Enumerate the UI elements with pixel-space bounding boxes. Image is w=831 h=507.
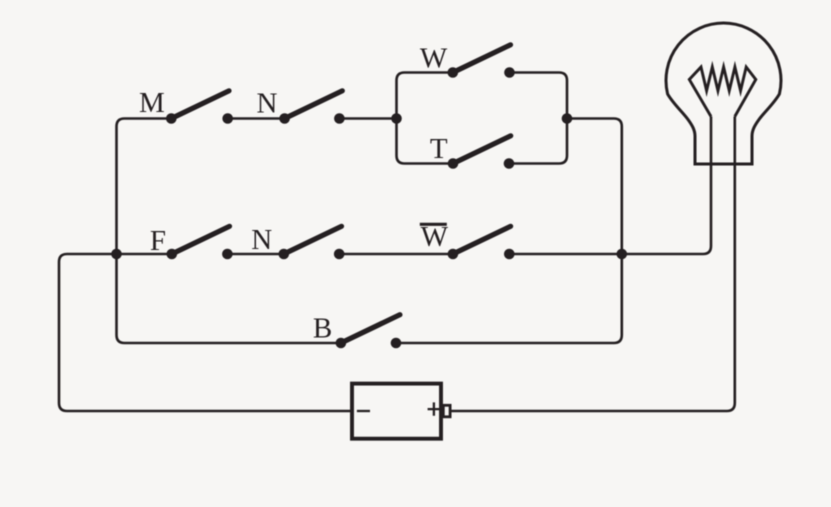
wire: M contact to N pivot — [228, 117, 285, 120]
switch Wbar pivot dot — [448, 249, 459, 260]
switch Wbar lever — [453, 226, 511, 254]
switch Wbar contact dot — [504, 249, 515, 260]
wire: right junction to bulb left lead — [622, 117, 711, 255]
node: F row left junction — [111, 249, 122, 260]
switch M contact dot — [222, 113, 233, 124]
switch M lever — [171, 91, 229, 119]
wire: bulb right lead down to battery plus — [452, 117, 735, 412]
wire: W/T block right side — [509, 73, 567, 164]
wire: Wbar contact to right junction — [509, 253, 622, 256]
switch T pivot dot — [448, 158, 459, 169]
svg-text:B: B — [313, 313, 332, 345]
switch T lever — [453, 136, 511, 164]
svg-text:W: W — [420, 43, 448, 75]
switch W lever — [453, 45, 511, 73]
node: W/T left junction — [391, 113, 402, 124]
battery body — [352, 384, 441, 439]
label Wbar overbar — [420, 223, 447, 226]
svg-text:T: T — [430, 133, 448, 165]
switch F pivot dot — [167, 249, 178, 260]
wire: N contact to W/T left junction — [339, 117, 396, 120]
lamp filament — [689, 67, 756, 117]
switch F contact dot — [222, 249, 233, 260]
wire: F row segment junction to F pivot — [117, 253, 172, 256]
svg-text:N: N — [256, 88, 277, 120]
switch N2 contact dot — [334, 249, 345, 260]
switch B lever — [341, 315, 400, 343]
wire: N2 contact to Wbar pivot — [339, 253, 453, 256]
svg-text:F: F — [150, 225, 166, 257]
wire: W/T right junction to right vertical + B row right — [396, 119, 622, 344]
lamp glass envelope — [666, 23, 781, 164]
switch F lever — [172, 226, 230, 254]
wire: top row left + left vertical + B row left — [117, 119, 341, 344]
wire: W/T block left side — [397, 73, 454, 164]
switch N2 lever — [284, 226, 342, 254]
switch M pivot dot — [166, 113, 177, 124]
switch N2 pivot dot — [279, 249, 290, 260]
switch B contact dot — [391, 338, 402, 349]
node: W/T right junction — [562, 113, 573, 124]
switch T contact dot — [504, 158, 515, 169]
battery plus terminal nub — [443, 405, 450, 417]
battery plus sign — [428, 402, 442, 415]
node: F row right junction — [617, 249, 628, 260]
switch W pivot dot — [448, 67, 459, 78]
svg-text:N: N — [251, 224, 272, 256]
switch N contact dot — [334, 113, 345, 124]
svg-text:M: M — [139, 87, 165, 119]
switch N pivot dot — [279, 113, 290, 124]
switch N lever — [285, 91, 343, 119]
wire: F contact to N2 pivot — [227, 253, 283, 256]
battery minus sign — [357, 410, 370, 412]
switch B pivot dot — [336, 338, 347, 349]
wire: F junction to far-left loop down to battery minus — [59, 254, 352, 411]
switch W contact dot — [504, 67, 515, 78]
